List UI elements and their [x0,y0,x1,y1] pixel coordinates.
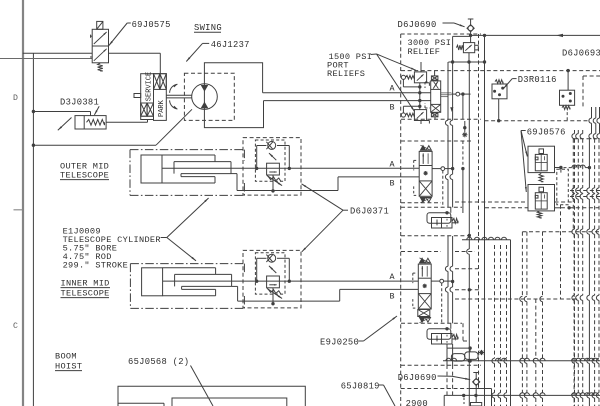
svg-text:D6J0690: D6J0690 [398,20,437,30]
svg-text:A: A [390,84,396,94]
svg-text:D6J0693: D6J0693 [562,49,600,59]
svg-text:TELESCOPE: TELESCOPE [61,288,110,298]
svg-text:D3J0381: D3J0381 [60,98,99,108]
svg-text:299." STROKE: 299." STROKE [63,261,129,271]
svg-text:D3R0116: D3R0116 [518,75,557,85]
svg-text:A: A [390,159,396,169]
svg-text:RELIEF: RELIEF [408,47,441,57]
svg-text:65J0819: 65J0819 [341,381,380,391]
svg-text:RELIEFS: RELIEFS [327,69,365,79]
svg-text:D: D [13,94,18,103]
svg-text:D6J0690: D6J0690 [398,373,437,383]
svg-text:HOIST: HOIST [55,361,82,371]
svg-text:A: A [390,272,396,282]
svg-text:2900: 2900 [406,399,428,406]
svg-text:PARK: PARK [158,99,166,117]
svg-text:B: B [390,178,395,188]
svg-text:69J0575: 69J0575 [132,20,171,30]
svg-text:B: B [390,103,395,113]
svg-text:65J0568 (2): 65J0568 (2) [128,357,189,367]
svg-text:C: C [13,322,18,331]
svg-text:INNER MID: INNER MID [61,278,110,288]
svg-text:B: B [390,291,395,301]
svg-text:D6J0371: D6J0371 [350,207,389,217]
svg-text:BOOM: BOOM [55,352,77,362]
svg-text:SERVICE: SERVICE [145,72,153,101]
svg-text:69J0576: 69J0576 [527,128,566,138]
svg-text:46J1237: 46J1237 [211,40,250,50]
svg-text:E9J0250: E9J0250 [320,337,359,347]
svg-text:SWING: SWING [194,23,222,33]
svg-text:TELESCOPE: TELESCOPE [60,170,109,180]
